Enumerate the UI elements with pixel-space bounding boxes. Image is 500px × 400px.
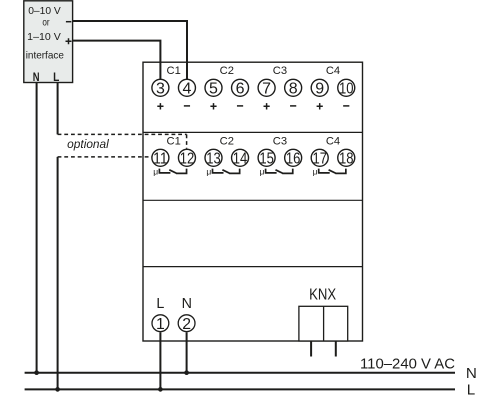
svg-text:C2: C2 (220, 65, 234, 77)
svg-text:7: 7 (262, 81, 271, 98)
svg-text:interface: interface (26, 50, 64, 62)
svg-text:N: N (466, 365, 477, 382)
svg-text:μ: μ (259, 166, 264, 176)
svg-text:C4: C4 (326, 65, 340, 77)
svg-text:17: 17 (312, 151, 327, 168)
svg-text:11: 11 (153, 151, 168, 168)
svg-text:N: N (182, 296, 192, 312)
svg-text:N: N (33, 72, 40, 84)
svg-text:L: L (156, 296, 164, 312)
svg-text:optional: optional (67, 139, 109, 151)
svg-text:12: 12 (180, 151, 195, 168)
svg-text:15: 15 (259, 151, 274, 168)
svg-text:μ: μ (206, 166, 211, 176)
svg-text:1–10 V: 1–10 V (27, 32, 61, 43)
svg-text:C1: C1 (167, 136, 181, 148)
svg-text:μ: μ (153, 166, 158, 176)
svg-text:C4: C4 (326, 136, 340, 148)
svg-text:L: L (467, 382, 475, 399)
svg-text:10: 10 (339, 81, 354, 98)
svg-text:μ: μ (313, 166, 318, 176)
svg-text:0–10 V: 0–10 V (28, 6, 61, 17)
svg-text:13: 13 (206, 151, 221, 168)
svg-text:4: 4 (182, 81, 191, 98)
svg-text:C3: C3 (273, 136, 287, 148)
svg-text:KNX: KNX (309, 287, 336, 304)
svg-text:L: L (53, 72, 59, 84)
svg-text:C1: C1 (167, 65, 181, 77)
svg-text:C2: C2 (220, 136, 234, 148)
svg-text:3: 3 (156, 81, 165, 98)
svg-text:6: 6 (236, 81, 245, 98)
svg-text:8: 8 (289, 81, 298, 98)
svg-text:1: 1 (156, 316, 165, 333)
svg-text:9: 9 (315, 81, 324, 98)
svg-text:16: 16 (286, 151, 301, 168)
svg-text:14: 14 (233, 151, 248, 168)
svg-text:5: 5 (209, 81, 218, 98)
svg-text:18: 18 (339, 151, 354, 168)
svg-text:110–240 V AC: 110–240 V AC (360, 356, 455, 372)
svg-text:or: or (42, 17, 50, 28)
svg-text:C3: C3 (273, 65, 287, 77)
svg-text:2: 2 (182, 316, 191, 333)
